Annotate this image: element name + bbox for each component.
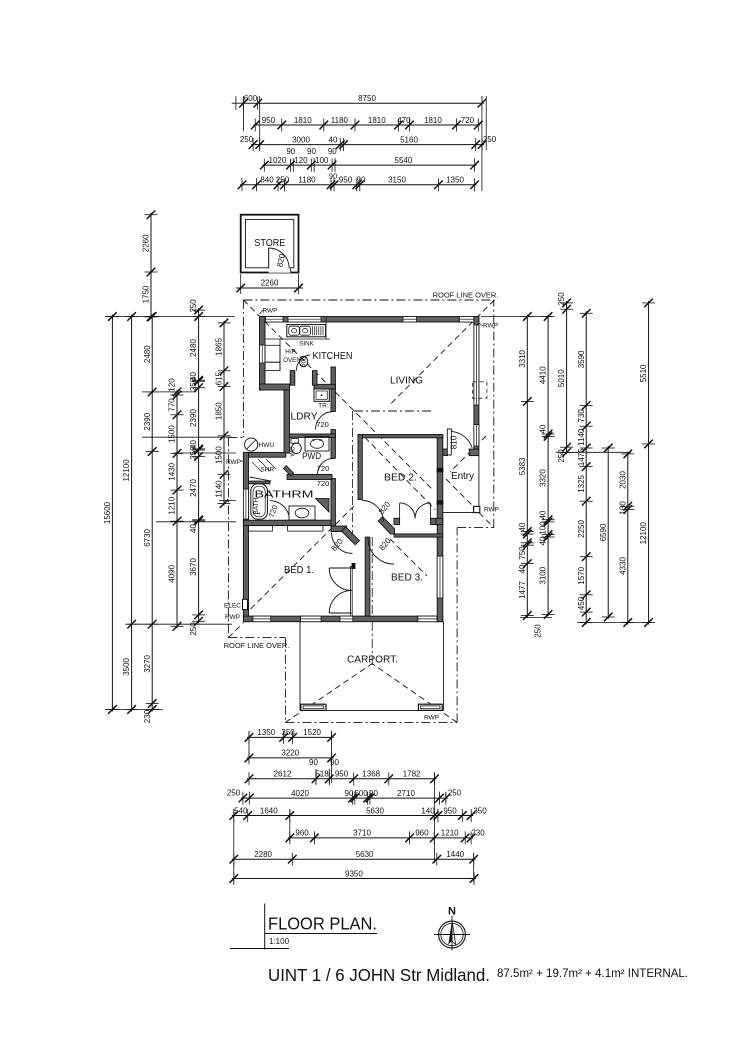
dim row 2280/5630/1440 <box>230 850 479 866</box>
svg-text:90: 90 <box>309 758 318 767</box>
roof diagonal entry a <box>450 436 486 472</box>
svg-text:15600: 15600 <box>103 501 112 524</box>
svg-text:ROOF LINE OVER.: ROOF LINE OVER. <box>433 291 499 300</box>
svg-text:OVEN: OVEN <box>283 357 301 364</box>
svg-text:1140: 1140 <box>577 428 586 446</box>
svg-text:LIVING: LIVING <box>390 376 423 387</box>
shower screen <box>250 477 272 481</box>
svg-text:2250: 2250 <box>577 520 586 538</box>
wall junction block b <box>437 500 444 504</box>
bath vanity <box>289 506 315 520</box>
roof line left lower <box>227 437 229 637</box>
svg-text:WC: WC <box>291 446 297 457</box>
wall bed2 bottom jamb right <box>431 518 437 524</box>
wall bed2 top <box>358 435 443 438</box>
svg-text:250: 250 <box>240 135 254 144</box>
svg-text:1810: 1810 <box>294 116 312 125</box>
witness lines bottom <box>248 731 250 762</box>
svg-text:RWP: RWP <box>226 459 241 466</box>
roof diagonal bed3 <box>390 539 427 576</box>
svg-text:40: 40 <box>539 510 548 519</box>
roof diagonal entry b <box>446 479 479 512</box>
shower corner chamfer <box>283 466 293 476</box>
wall kitchen bottom <box>260 384 290 390</box>
dim col 2260/1750 <box>142 210 158 321</box>
hwu circle <box>245 438 258 451</box>
svg-text:230: 230 <box>471 829 485 838</box>
title horizontal line <box>230 948 289 950</box>
svg-text:40: 40 <box>518 522 527 531</box>
store door opening <box>269 267 291 273</box>
svg-text:5010: 5010 <box>557 369 566 387</box>
store inner wall <box>245 219 293 267</box>
svg-text:1810: 1810 <box>424 116 442 125</box>
svg-text:3710: 3710 <box>353 829 371 838</box>
dim row 950..720 <box>251 116 483 132</box>
svg-text:960: 960 <box>415 829 429 838</box>
svg-text:2260: 2260 <box>261 279 279 288</box>
svg-text:600: 600 <box>244 94 258 103</box>
svg-text:1020: 1020 <box>269 156 287 165</box>
svg-text:1180: 1180 <box>331 116 349 125</box>
ldry trough <box>314 389 329 401</box>
svg-text:4410: 4410 <box>539 366 548 384</box>
svg-text:1570: 1570 <box>577 566 586 584</box>
roof diagonal entry c <box>479 513 494 528</box>
window top living 2 <box>460 317 475 323</box>
dim col 250/5010/250 <box>557 292 573 463</box>
svg-text:1810: 1810 <box>368 116 386 125</box>
svg-text:5630: 5630 <box>356 850 374 859</box>
carport diagonal left <box>285 664 372 723</box>
svg-text:BATHRM: BATHRM <box>255 489 314 501</box>
svg-text:6730: 6730 <box>143 528 152 546</box>
roof line entry step <box>457 527 494 529</box>
svg-text:250: 250 <box>534 624 543 638</box>
svg-text:40: 40 <box>539 424 548 433</box>
wall left kitchen <box>260 317 266 391</box>
window bottom bed3 b <box>418 616 437 622</box>
roof line bottom-left <box>228 637 285 639</box>
kitchen fridge recess <box>265 345 280 362</box>
svg-text:5160: 5160 <box>400 135 418 144</box>
wall bed1 top <box>243 520 331 525</box>
svg-text:1865: 1865 <box>215 337 224 355</box>
window bottom bed1 a <box>253 616 271 622</box>
roof line left jog <box>228 436 243 438</box>
svg-text:90: 90 <box>357 176 366 185</box>
svg-text:2710: 2710 <box>397 789 415 798</box>
bath bathtub <box>251 484 268 520</box>
svg-text:LDRY: LDRY <box>291 411 318 423</box>
wall hall chamfer bed1 <box>342 527 360 545</box>
svg-text:3320: 3320 <box>539 469 548 487</box>
svg-text:950: 950 <box>262 116 276 125</box>
store outer wall <box>241 215 299 273</box>
bath door arc <box>270 501 289 516</box>
roof diagonal SW mini <box>228 623 243 638</box>
dim col 12100/3500 <box>122 312 138 714</box>
bed1 robe partition <box>351 567 353 617</box>
title vertical line <box>264 904 266 950</box>
svg-text:40: 40 <box>518 564 527 573</box>
svg-text:100: 100 <box>315 156 329 165</box>
svg-text:1430: 1430 <box>168 462 177 480</box>
dim col 6590 <box>599 444 615 622</box>
svg-text:250: 250 <box>557 292 566 306</box>
svg-text:1368: 1368 <box>362 770 380 779</box>
svg-text:5383: 5383 <box>518 457 527 475</box>
dim col 3590/730/1140/1475/1325/2250/1570/450 <box>577 309 593 627</box>
store dim 2260 <box>240 274 242 294</box>
dim row 1020/120/100/5540 <box>260 156 479 172</box>
svg-text:100: 100 <box>539 521 548 535</box>
title underline <box>265 933 377 935</box>
svg-text:2390: 2390 <box>189 409 198 427</box>
dim row 3220 <box>245 749 336 765</box>
svg-text:1850: 1850 <box>215 402 224 420</box>
carport left edge <box>299 622 301 711</box>
svg-text:SHR: SHR <box>260 467 274 474</box>
carport bottom edge <box>300 709 444 711</box>
svg-text:720: 720 <box>461 116 475 125</box>
dim col 120/770/1500/1430/1210/4090 <box>168 378 184 631</box>
svg-text:950: 950 <box>339 176 353 185</box>
pwd door arc <box>318 458 334 474</box>
svg-text:3590: 3590 <box>577 350 586 368</box>
wall ldry pwd divider <box>290 434 336 437</box>
svg-text:2030: 2030 <box>618 471 627 489</box>
kitchen pantry recess <box>265 362 280 370</box>
wall kitchen south-east <box>314 384 335 389</box>
svg-text:40: 40 <box>329 135 338 144</box>
sink bowls <box>289 326 300 335</box>
svg-text:BED 2.: BED 2. <box>384 472 417 484</box>
witness lines top <box>481 96 483 191</box>
svg-text:STORE: STORE <box>254 237 285 249</box>
svg-text:1350: 1350 <box>446 176 464 185</box>
svg-text:4020: 4020 <box>291 789 309 798</box>
dim col 3310/5383/40/750/40/1477 <box>518 312 534 620</box>
svg-text:720: 720 <box>317 464 330 473</box>
wall bed2 bottom jamb left <box>394 518 400 524</box>
svg-text:12100: 12100 <box>639 522 648 545</box>
pwd basin box <box>305 436 329 451</box>
svg-text:720: 720 <box>317 479 330 488</box>
svg-text:130: 130 <box>618 501 627 515</box>
svg-text:BED 1.: BED 1. <box>284 564 314 576</box>
svg-text:5540: 5540 <box>395 156 413 165</box>
kitchen door piers <box>290 371 295 386</box>
roof diagonal bed2 <box>365 437 436 510</box>
wall bath top <box>243 452 285 457</box>
wall pwd bath divider <box>287 474 332 479</box>
entry porch outline <box>478 456 480 513</box>
svg-text:90: 90 <box>369 789 378 798</box>
svg-text:UINT 1 / 6 JOHN Str Midland.: UINT 1 / 6 JOHN Str Midland. <box>268 965 490 985</box>
wall bed2 bottom right piece <box>436 518 443 524</box>
svg-text:540: 540 <box>234 806 248 815</box>
svg-text:40: 40 <box>539 536 548 545</box>
svg-text:8750: 8750 <box>358 94 376 103</box>
svg-text:3670: 3670 <box>189 558 198 576</box>
window bottom bed3 a <box>340 616 353 622</box>
wall entry door pier <box>469 449 479 456</box>
svg-text:3000: 3000 <box>292 135 310 144</box>
shower hatch <box>252 462 262 472</box>
roof diagonal NW long <box>243 300 433 490</box>
svg-text:250: 250 <box>189 377 198 391</box>
svg-text:H/P: H/P <box>285 349 296 356</box>
svg-text:120: 120 <box>294 156 308 165</box>
svg-text:960: 960 <box>295 829 309 838</box>
dim col 15600 <box>103 312 119 714</box>
dim col 2480/2390/6730/3270/230 <box>143 312 159 723</box>
hall valley dash line <box>351 411 353 535</box>
entry rwp box <box>474 506 480 512</box>
window right bed3 <box>437 556 443 598</box>
dim row 9350 <box>230 869 479 885</box>
svg-text:350: 350 <box>473 806 487 815</box>
carport right edge <box>443 622 445 711</box>
left witness connectors <box>105 316 235 318</box>
wall entry left jamb <box>443 449 448 456</box>
svg-text:250: 250 <box>483 135 497 144</box>
basin taps <box>313 439 315 441</box>
svg-text:1750: 1750 <box>142 285 151 303</box>
store door leaf and arc <box>268 248 270 269</box>
bed1 door arc <box>332 533 353 554</box>
svg-text:N: N <box>448 906 456 918</box>
svg-text:KITCHEN: KITCHEN <box>313 351 353 362</box>
right witness connectors <box>481 316 552 318</box>
svg-text:250: 250 <box>189 299 198 313</box>
svg-text:500: 500 <box>354 789 368 798</box>
svg-text:3310: 3310 <box>518 349 527 367</box>
window bottom bed1 b <box>301 616 322 622</box>
svg-text:230: 230 <box>143 709 152 723</box>
wall laundry left <box>284 390 290 453</box>
svg-text:250: 250 <box>448 789 462 798</box>
svg-text:1640: 1640 <box>260 806 278 815</box>
roof line carport left <box>284 638 286 723</box>
dim col 1865/615/1850/1500/1140 <box>215 319 231 508</box>
roof diagonal NE <box>391 300 494 404</box>
meter box <box>243 599 248 609</box>
svg-text:3270: 3270 <box>143 654 152 672</box>
window top living 1 <box>403 317 417 323</box>
entry door leaf and arc <box>447 429 451 455</box>
svg-text:3220: 3220 <box>281 749 299 758</box>
svg-text:720: 720 <box>316 420 329 429</box>
dim row 540/1640/5630/140/950/350 <box>230 806 488 822</box>
svg-text:1140: 1140 <box>215 480 224 498</box>
svg-text:CARPORT.: CARPORT. <box>347 654 398 666</box>
bed1 robe doors <box>329 567 351 569</box>
ac dashed box right <box>473 382 487 398</box>
svg-text:6590: 6590 <box>599 523 608 541</box>
svg-text:12100: 12100 <box>122 459 131 482</box>
svg-text:518: 518 <box>315 770 329 779</box>
wall right upper living <box>474 317 479 450</box>
svg-text:615: 615 <box>215 371 224 385</box>
bath niche <box>316 499 330 513</box>
kitchen oven door arc <box>296 355 310 371</box>
svg-text:1350: 1350 <box>257 728 275 737</box>
wall bed2 left <box>358 435 362 500</box>
svg-text:770: 770 <box>168 398 177 412</box>
dim col 4410/40/3320/40/100/40/3100 <box>539 312 555 619</box>
bed2 door arc <box>362 501 383 522</box>
carport pier left <box>301 704 326 710</box>
dim row 2612/518/950/1368/1782 <box>245 770 439 786</box>
wall bed1 door stub <box>331 526 347 532</box>
dim row 250/4020/90/500/90/2710/250 <box>239 789 451 805</box>
svg-text:2260: 2260 <box>142 234 151 252</box>
wall left lower <box>243 452 248 621</box>
svg-text:FLOOR PLAN.: FLOOR PLAN. <box>268 914 377 934</box>
svg-text:1500: 1500 <box>168 425 177 443</box>
svg-text:TR: TR <box>318 403 327 410</box>
svg-text:450: 450 <box>577 596 586 610</box>
svg-text:950: 950 <box>443 806 457 815</box>
svg-text:3150: 3150 <box>388 176 406 185</box>
roof line carport bottom <box>285 721 457 723</box>
wall ldry pwd right <box>331 367 335 412</box>
svg-text:950: 950 <box>335 770 349 779</box>
carport pier right <box>418 704 442 710</box>
svg-text:2390: 2390 <box>143 412 152 430</box>
bed1 robe boxes <box>248 526 272 532</box>
bed1 robe jamb block <box>352 563 356 569</box>
wall junction block a <box>437 468 444 472</box>
dim row 960/3710/960/1210/230 <box>286 829 486 845</box>
svg-text:87.5m² + 19.7m² + 4.1m² INTERN: 87.5m² + 19.7m² + 4.1m² INTERNAL. <box>497 968 688 980</box>
dim row 250/3000/40/5160/250 <box>249 135 487 151</box>
svg-text:2470: 2470 <box>189 479 198 497</box>
bed3 door arc <box>368 538 394 564</box>
kitchen bench edge <box>265 338 330 340</box>
svg-text:750: 750 <box>518 546 527 560</box>
roof ridge dashdot <box>354 410 434 412</box>
svg-text:PWD: PWD <box>302 451 321 462</box>
dim row 1350/350/1520 <box>245 728 336 744</box>
svg-text:470: 470 <box>397 116 411 125</box>
window right living 2 <box>474 425 479 446</box>
bed3 valley dash line <box>371 537 373 666</box>
svg-text:4090: 4090 <box>168 564 177 582</box>
wall hall chamfer bed2-bed3 <box>378 517 394 534</box>
svg-text:Entry: Entry <box>451 470 475 482</box>
svg-text:HWU: HWU <box>259 442 275 449</box>
bath shower divider <box>249 481 271 484</box>
svg-text:1475: 1475 <box>577 448 586 466</box>
svg-text:350: 350 <box>281 728 295 737</box>
svg-text:840: 840 <box>260 176 274 185</box>
window top kitchen-left <box>266 317 284 323</box>
svg-text:RWP: RWP <box>262 308 277 315</box>
svg-text:140: 140 <box>421 806 435 815</box>
roof line left upper <box>242 300 244 437</box>
dim col 2030/130/4330 <box>618 450 634 627</box>
svg-text:1180: 1180 <box>298 176 316 185</box>
ldry door arc <box>316 412 334 430</box>
svg-text:810: 810 <box>450 435 459 449</box>
svg-text:1500: 1500 <box>215 446 224 464</box>
compass north symbol <box>434 906 470 951</box>
dim col 250/2480/40/250/2390/40/250/2470/40/3670/250 <box>189 299 205 636</box>
wall top <box>260 317 479 323</box>
svg-text:90: 90 <box>345 789 354 798</box>
dim row 600/8750 <box>239 94 486 110</box>
bed2 robe doors <box>400 503 415 518</box>
roof line carport right <box>456 528 458 723</box>
svg-text:RWP: RWP <box>225 614 240 621</box>
svg-text:2480: 2480 <box>143 345 152 363</box>
svg-text:1477: 1477 <box>518 581 527 599</box>
svg-text:90: 90 <box>307 147 316 156</box>
svg-text:250: 250 <box>227 789 241 798</box>
sink drainer hatch <box>313 326 324 335</box>
svg-text:1:100: 1:100 <box>269 937 290 946</box>
dim row 840..1350 <box>238 176 479 192</box>
svg-text:1210: 1210 <box>441 829 459 838</box>
wall bed3 top / robe back <box>394 534 443 537</box>
svg-text:4330: 4330 <box>618 557 627 575</box>
carport diagonal right <box>372 664 457 723</box>
svg-text:9350: 9350 <box>345 869 363 878</box>
pwd wc <box>291 438 298 443</box>
wall bottom <box>243 616 442 622</box>
window left kitchen <box>260 345 266 363</box>
svg-text:90: 90 <box>329 172 337 181</box>
svg-text:BED 3.: BED 3. <box>391 572 423 584</box>
svg-text:5510: 5510 <box>639 364 648 382</box>
svg-text:90: 90 <box>328 147 337 156</box>
svg-text:3500: 3500 <box>122 657 131 675</box>
svg-text:250: 250 <box>557 449 566 463</box>
svg-text:1440: 1440 <box>446 850 464 859</box>
svg-text:90: 90 <box>286 147 295 156</box>
wall bed1 bed3 divider <box>365 537 370 616</box>
svg-text:250: 250 <box>276 176 290 185</box>
svg-text:1782: 1782 <box>403 770 421 779</box>
svg-text:SINK: SINK <box>299 341 314 348</box>
svg-text:RWP: RWP <box>424 715 439 722</box>
roof diagonal SW bed1 <box>243 505 355 616</box>
dim col 5510/12100 <box>639 299 655 627</box>
roof line right <box>493 300 495 528</box>
window right living 1 <box>474 325 479 405</box>
svg-text:RWP: RWP <box>483 323 498 330</box>
roof line top <box>243 299 494 301</box>
svg-text:2480: 2480 <box>189 339 198 357</box>
svg-text:ROOF LINE OVER.: ROOF LINE OVER. <box>224 641 290 650</box>
svg-text:1325: 1325 <box>577 474 586 492</box>
window top sink <box>288 317 321 323</box>
svg-text:2612: 2612 <box>274 770 292 779</box>
svg-text:RWP: RWP <box>484 507 499 514</box>
svg-text:5630: 5630 <box>366 806 384 815</box>
svg-text:1210: 1210 <box>168 496 177 514</box>
kitchen bench return line <box>279 339 281 371</box>
svg-text:730: 730 <box>577 409 586 423</box>
wall bed2 bed3 right <box>437 435 443 622</box>
svg-text:40: 40 <box>189 524 198 533</box>
svg-text:2280: 2280 <box>254 850 272 859</box>
window left bath <box>243 489 248 519</box>
svg-text:ELEC: ELEC <box>224 603 241 610</box>
